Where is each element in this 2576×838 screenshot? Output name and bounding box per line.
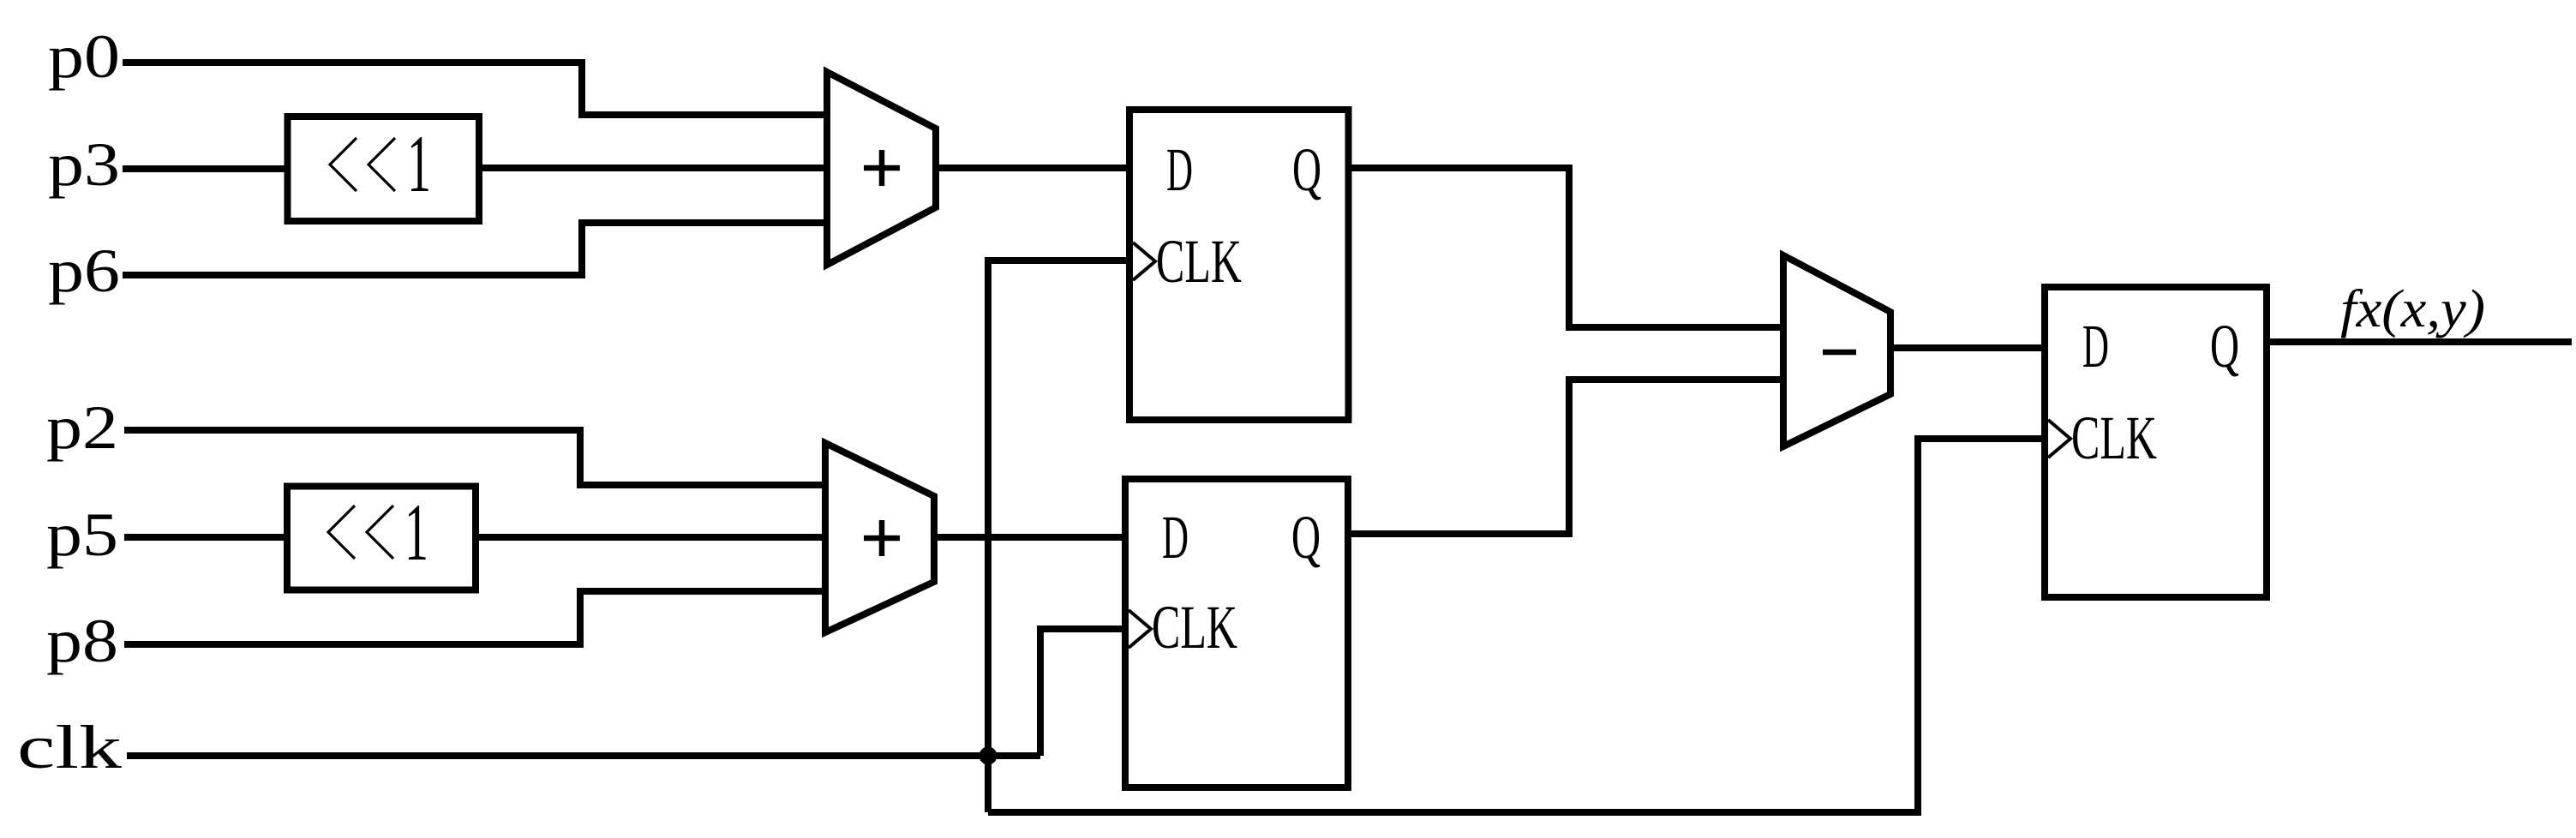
junction clk node dot [979, 747, 997, 765]
node p6 label [48, 236, 120, 305]
node p5 label [46, 500, 118, 569]
D flip-flop FF2 box [1125, 479, 1348, 787]
FF3 clock triangle [2048, 420, 2070, 458]
node clk label [17, 713, 122, 781]
wire clk bottom run to FF3 CLK [988, 439, 2045, 812]
wire clk trunk horizontal [127, 752, 1040, 759]
svg-text:Q: Q [1292, 135, 1321, 204]
wire shifter U2 to adder A2 [474, 534, 825, 541]
wire p6 to adder A1 [123, 223, 827, 275]
node p2 label [46, 393, 118, 462]
svg-text:p6: p6 [48, 236, 120, 305]
svg-text:p0: p0 [48, 22, 120, 91]
FF2 pin Q label [1291, 503, 1321, 572]
svg-text:1: 1 [407, 118, 431, 209]
wire clk riser to FF2 CLK [1040, 629, 1125, 756]
svg-text:Q: Q [1291, 503, 1321, 572]
svg-text:D: D [1166, 135, 1193, 204]
svg-text:D: D [1162, 503, 1189, 572]
shifter U1 value 1 [407, 118, 431, 209]
svg-text:1: 1 [404, 487, 428, 578]
node p8 label [46, 607, 118, 675]
shifter U2 chevrons [328, 506, 393, 559]
FF3 pin Q label [2210, 312, 2239, 380]
svg-text:p8: p8 [46, 607, 118, 675]
wire p0 to adder A1 [123, 63, 827, 115]
shifter U2 box [287, 487, 476, 590]
wire p2 to adder A2 [124, 430, 825, 485]
wire FF2 Q to subtractor S1 bottom input [1348, 380, 1783, 534]
D flip-flop FF1 box [1129, 110, 1349, 420]
FF3 pin CLK label [2071, 404, 2157, 472]
wire adder A2 to FF2 D [934, 534, 1125, 541]
wire shifter U1 to adder A1 [477, 165, 827, 171]
wire subtractor S1 to FF3 D [1890, 344, 2045, 351]
wire adder A1 to FF1 D [936, 165, 1129, 171]
wire p3 to shifter U1 [123, 165, 291, 172]
FF2 clock triangle [1129, 610, 1151, 648]
svg-text:CLK: CLK [1156, 227, 1242, 296]
adder A2 plus sign [864, 520, 900, 556]
node fx(x,y) label [2340, 280, 2485, 338]
svg-text:p2: p2 [46, 393, 118, 462]
FF2 pin CLK label [1152, 593, 1237, 661]
wire clk vertical riser and FF1 CLK stub [988, 260, 1129, 812]
svg-text:fx(x,y): fx(x,y) [2340, 280, 2485, 338]
shifter U1 chevrons [330, 138, 395, 191]
node p3 label [48, 130, 120, 199]
wire p8 to adder A2 [124, 591, 825, 644]
adder A1 [827, 72, 936, 265]
adder A2 [825, 443, 934, 632]
D flip-flop FF3 box [2045, 287, 2267, 597]
svg-text:Q: Q [2210, 312, 2239, 380]
svg-text:p3: p3 [48, 130, 120, 199]
FF1 pin D label [1166, 135, 1193, 204]
node p0 label [48, 22, 120, 91]
svg-text:D: D [2082, 312, 2109, 380]
svg-text:CLK: CLK [1152, 593, 1237, 661]
svg-text:CLK: CLK [2071, 404, 2157, 472]
subtractor S1 minus sign [1823, 350, 1856, 356]
FF3 pin D label [2082, 312, 2109, 380]
FF1 clock triangle [1133, 242, 1155, 280]
shifter U1 box [288, 117, 480, 221]
FF2 pin D label [1162, 503, 1189, 572]
subtractor S1 [1783, 255, 1890, 446]
adder A1 plus sign [864, 150, 900, 186]
wire FF3 Q output [2267, 338, 2572, 345]
svg-text:p5: p5 [46, 500, 118, 569]
svg-text:clk: clk [17, 713, 122, 781]
wire FF1 Q to subtractor S1 top input [1348, 168, 1783, 327]
FF1 pin CLK label [1156, 227, 1242, 296]
wire p5 to shifter U2 [124, 534, 290, 541]
FF1 pin Q label [1292, 135, 1321, 204]
shifter U2 value 1 [404, 487, 428, 578]
